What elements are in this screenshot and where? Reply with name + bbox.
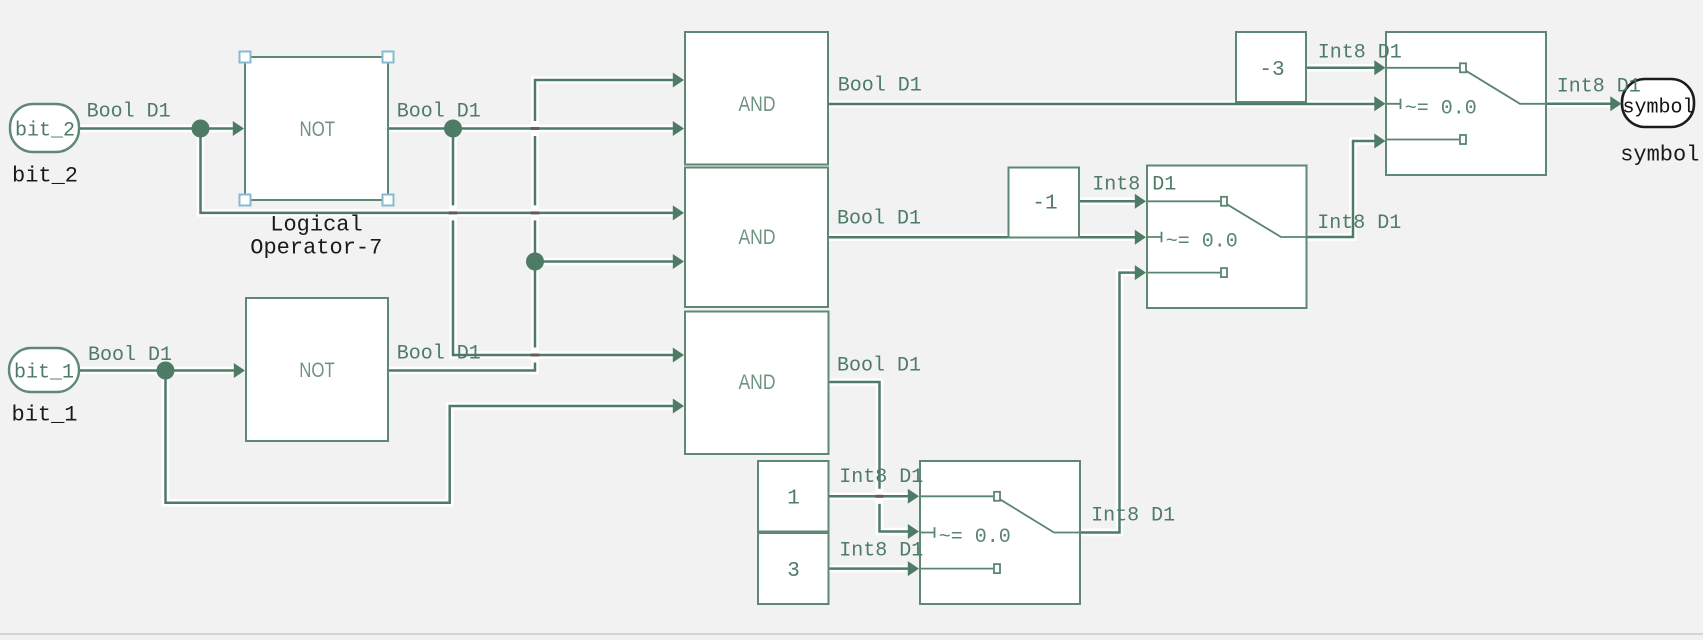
constant 3 <box>758 533 829 604</box>
arrowhead into outport symbol <box>1610 96 1621 111</box>
arrowhead AND3 in1 <box>673 348 684 363</box>
arrowhead bottom switch in1 <box>908 489 919 504</box>
svg-text:Int8 D1: Int8 D1 <box>839 466 923 489</box>
selection handle <box>383 52 394 63</box>
arrowhead AND2 in2 <box>673 254 684 269</box>
crossing mark x535 y213 <box>532 205 538 220</box>
switch middle <box>1147 166 1307 309</box>
constant 1 <box>758 461 829 532</box>
svg-text:Bool D1: Bool D1 <box>837 354 921 377</box>
junction NOT2-out branch <box>526 253 544 271</box>
svg-text:bit_2: bit_2 <box>15 120 75 143</box>
arrowhead top switch in3 <box>1374 134 1385 149</box>
svg-text:Bool D1: Bool D1 <box>88 344 172 367</box>
crossing mark x879 y496 <box>877 489 883 504</box>
crossing mark x535 y355 <box>532 348 538 363</box>
svg-text:AND: AND <box>739 226 776 249</box>
svg-text:~= 0.0: ~= 0.0 <box>939 526 1011 549</box>
switch top <box>1386 32 1546 175</box>
wire bit_1 to NOT2 <box>79 367 235 375</box>
wire bit_1 branch to AND3 in2 <box>166 371 675 503</box>
wire bit_2 to NOT1 <box>79 125 234 133</box>
wire middle switch out to top switch in3 <box>1307 141 1377 237</box>
svg-text:Int8 D1: Int8 D1 <box>839 540 923 563</box>
wire const-1-out to middle switch in1 <box>1079 198 1136 206</box>
svg-text:3: 3 <box>787 560 800 583</box>
switch internals switch bottom <box>921 492 1079 573</box>
wire const3-out to bottom switch in3 <box>829 565 910 573</box>
svg-text:Int8 D1: Int8 D1 <box>1317 212 1401 235</box>
selection handle <box>383 195 394 206</box>
svg-text:-1: -1 <box>1032 193 1057 216</box>
inport bit_1 <box>9 348 79 392</box>
arrowhead middle switch in2 <box>1135 230 1146 245</box>
wire top switch out to outport symbol <box>1546 100 1611 108</box>
svg-text:1: 1 <box>787 488 800 511</box>
arrowhead into NOT1 <box>233 121 244 136</box>
switch bottom <box>920 461 1080 604</box>
logical operator AND3 <box>685 312 829 455</box>
logical operator AND2 <box>685 168 828 308</box>
switch internals switch middle <box>1148 197 1306 277</box>
arrowhead into NOT2 <box>234 363 245 378</box>
svg-text:~= 0.0: ~= 0.0 <box>1405 98 1477 121</box>
svg-text:symbol: symbol <box>1620 142 1699 167</box>
wire AND3-out to bottom switch control <box>829 382 910 532</box>
arrowhead AND1 in2 <box>673 121 684 136</box>
arrowhead middle switch in1 <box>1135 194 1146 209</box>
constant -1 <box>1009 168 1080 238</box>
svg-text:NOT: NOT <box>300 118 336 141</box>
outport symbol <box>1622 79 1694 127</box>
arrowhead top switch in1 <box>1374 60 1385 75</box>
switch internals switch top <box>1387 63 1545 144</box>
selection handle <box>240 52 251 63</box>
svg-text:Bool D1: Bool D1 <box>837 208 921 231</box>
svg-text:Bool D1: Bool D1 <box>87 101 171 124</box>
svg-text:bit_1: bit_1 <box>12 403 78 428</box>
wire bottom switch out to middle switch in3 <box>1080 273 1136 533</box>
svg-text:Bool D1: Bool D1 <box>397 101 481 124</box>
wire NOT1-out to AND1 in2 <box>388 125 674 133</box>
svg-text:Bool D1: Bool D1 <box>397 343 481 366</box>
svg-text:NOT: NOT <box>299 359 335 382</box>
arrowhead top switch in2 <box>1374 96 1385 111</box>
logical operator NOT2 <box>246 298 388 441</box>
wire const-3-out to top switch in1 <box>1306 64 1376 72</box>
svg-text:-3: -3 <box>1259 59 1284 82</box>
svg-text:symbol: symbol <box>1622 97 1694 120</box>
svg-text:AND: AND <box>739 93 776 116</box>
svg-text:Int8 D1: Int8 D1 <box>1091 504 1175 527</box>
junction bit_1 branch <box>157 362 175 380</box>
svg-text:~= 0.0: ~= 0.0 <box>1166 231 1238 254</box>
wire NOT2-out branch to AND2 in2 <box>535 258 674 266</box>
wire bit_2 branch to AND2 in1 <box>201 129 675 213</box>
selection handle <box>240 195 251 206</box>
wire NOT1-out branch to AND3 in1 (riser x=453) <box>453 129 674 356</box>
wire AND2-out to middle switch control <box>828 233 1136 241</box>
bottom window edge <box>0 633 1703 635</box>
logical operator AND1 <box>685 32 828 165</box>
constant -3 <box>1236 32 1306 102</box>
svg-text:Int8 D1: Int8 D1 <box>1557 76 1641 99</box>
svg-text:AND: AND <box>739 371 776 394</box>
svg-text:Bool D1: Bool D1 <box>838 74 922 97</box>
crossing mark x453 y213 <box>450 205 456 220</box>
logical operator NOT1 (Logical Operator-7) <box>245 57 388 200</box>
crossing mark x535 y128 <box>532 121 538 136</box>
svg-text:Int8 D1: Int8 D1 <box>1092 173 1176 196</box>
svg-text:Int8 D1: Int8 D1 <box>1318 42 1402 65</box>
arrowhead AND2 in1 <box>673 205 684 220</box>
arrowhead bottom switch in3 <box>908 561 919 576</box>
wire NOT2-out to AND1 in1 (riser x=535) <box>389 80 675 371</box>
arrowhead AND1 in1 <box>673 73 684 88</box>
wire AND1-out to top switch control <box>828 100 1376 108</box>
svg-text:Operator-7: Operator-7 <box>250 236 382 261</box>
junction NOT1-out branch <box>444 120 462 138</box>
svg-text:bit_1: bit_1 <box>14 362 74 385</box>
wire const1-out to bottom switch in1 <box>829 493 910 501</box>
arrowhead AND3 in2 <box>673 399 684 414</box>
inport bit_2 <box>10 104 79 152</box>
svg-text:bit_2: bit_2 <box>12 163 78 188</box>
svg-text:Logical: Logical <box>270 212 362 237</box>
arrowhead bottom switch in2 <box>908 524 919 539</box>
junction bit_2 branch <box>192 120 210 138</box>
arrowhead middle switch in3 <box>1135 265 1146 280</box>
